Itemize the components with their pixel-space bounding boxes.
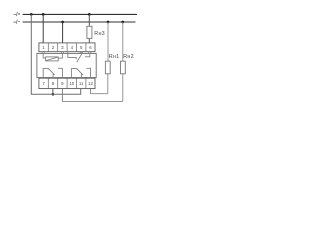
svg-text:Rн2: Rн2 [123, 54, 133, 60]
svg-text:10: 10 [69, 81, 74, 86]
svg-text:Rн3: Rн3 [94, 31, 105, 37]
svg-text:Rн1: Rн1 [109, 54, 119, 60]
svg-text:11: 11 [79, 81, 84, 86]
svg-text:12: 12 [88, 81, 93, 86]
